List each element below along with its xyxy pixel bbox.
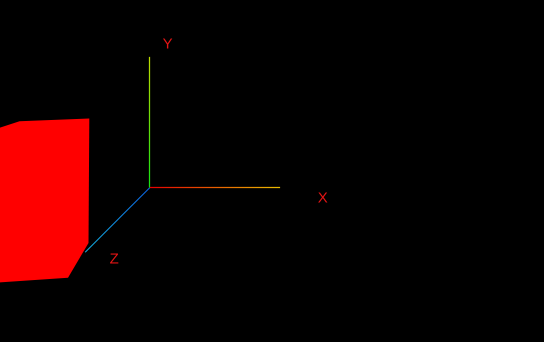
wire X axis (red-to-gold gradient horizontal line)	[150, 187, 280, 189]
wire Y axis (green gradient vertical line)	[149, 57, 151, 188]
red box (3D cube face, left side)	[0, 119, 89, 283]
svg-text:Z: Z	[110, 250, 119, 267]
svg-text:Y: Y	[163, 35, 173, 52]
wire Z axis (blue gradient line from origin down-left)	[85, 188, 150, 253]
svg-text:X: X	[318, 190, 328, 207]
